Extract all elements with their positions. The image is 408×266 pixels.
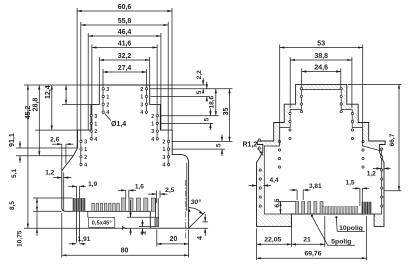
- svg-text:1,2: 1,2: [45, 170, 54, 177]
- svg-text:30°: 30°: [191, 198, 202, 206]
- svg-text:53: 53: [317, 40, 325, 47]
- svg-text:3: 3: [94, 114, 97, 120]
- svg-text:3: 3: [84, 140, 87, 146]
- svg-text:1,91: 1,91: [78, 236, 91, 243]
- svg-text:55,8: 55,8: [118, 18, 132, 25]
- svg-text:2,2: 2,2: [196, 70, 203, 79]
- svg-text:8,5: 8,5: [9, 201, 16, 210]
- svg-text:1: 1: [106, 95, 109, 101]
- svg-text:3: 3: [106, 87, 109, 93]
- svg-text:45,2: 45,2: [25, 106, 32, 120]
- svg-text:4,4: 4,4: [269, 177, 278, 184]
- svg-text:28,8: 28,8: [33, 98, 40, 112]
- svg-text:18,6: 18,6: [208, 95, 215, 108]
- svg-text:1: 1: [84, 147, 87, 153]
- svg-text:20: 20: [170, 236, 178, 243]
- svg-text:91,1: 91,1: [9, 133, 16, 147]
- svg-text:1: 1: [163, 147, 166, 153]
- svg-text:5: 5: [204, 117, 211, 121]
- svg-text:5: 5: [196, 90, 203, 94]
- svg-text:10polig: 10polig: [339, 225, 363, 232]
- svg-text:2: 2: [151, 114, 154, 120]
- svg-text:69,76: 69,76: [304, 250, 321, 257]
- svg-text:46,4: 46,4: [118, 29, 132, 36]
- svg-text:4: 4: [106, 110, 109, 116]
- svg-text:22,05: 22,05: [264, 236, 281, 243]
- svg-text:7: 7: [120, 226, 129, 230]
- svg-text:24,6: 24,6: [314, 64, 328, 71]
- svg-text:1,5: 1,5: [345, 180, 354, 187]
- svg-text:3: 3: [163, 155, 166, 161]
- svg-text:2,6: 2,6: [50, 137, 59, 144]
- svg-text:1: 1: [138, 231, 147, 235]
- svg-text:1: 1: [151, 122, 154, 128]
- svg-text:5,1: 5,1: [11, 169, 18, 178]
- svg-text:5polig: 5polig: [331, 239, 351, 246]
- svg-text:5: 5: [215, 143, 222, 147]
- svg-text:Ø1,4: Ø1,4: [111, 121, 126, 128]
- svg-text:2: 2: [163, 140, 166, 146]
- svg-text:1,9: 1,9: [88, 181, 97, 188]
- svg-text:41,6: 41,6: [118, 40, 132, 47]
- svg-text:60,6: 60,6: [118, 4, 132, 11]
- svg-text:66,7: 66,7: [389, 133, 396, 146]
- svg-text:2: 2: [106, 102, 109, 108]
- svg-text:35: 35: [223, 108, 230, 116]
- svg-text:R1,2: R1,2: [243, 142, 258, 149]
- svg-text:4: 4: [151, 137, 154, 143]
- svg-text:10,75: 10,75: [16, 230, 23, 247]
- svg-text:21: 21: [303, 236, 311, 243]
- svg-text:3: 3: [140, 102, 143, 108]
- svg-text:3: 3: [151, 129, 154, 135]
- svg-text:1,2: 1,2: [367, 171, 376, 178]
- svg-text:3,81: 3,81: [309, 183, 322, 190]
- svg-text:1: 1: [140, 95, 143, 101]
- svg-text:4: 4: [195, 236, 204, 240]
- svg-text:6,5: 6,5: [274, 198, 281, 207]
- svg-text:12,4: 12,4: [45, 85, 52, 99]
- svg-text:38,8: 38,8: [314, 53, 328, 60]
- svg-text:4: 4: [163, 163, 166, 169]
- svg-text:0,5x45°: 0,5x45°: [92, 221, 113, 227]
- svg-text:4: 4: [140, 110, 143, 116]
- svg-text:2: 2: [94, 129, 97, 135]
- svg-text:2,5: 2,5: [165, 187, 174, 194]
- svg-text:4: 4: [94, 137, 97, 143]
- svg-text:32,2: 32,2: [118, 53, 132, 60]
- svg-text:80: 80: [121, 247, 129, 254]
- svg-text:27,4: 27,4: [118, 65, 132, 72]
- svg-text:1,6: 1,6: [135, 183, 144, 190]
- svg-text:2: 2: [140, 87, 143, 93]
- svg-text:4: 4: [84, 163, 87, 169]
- svg-text:1: 1: [94, 122, 97, 128]
- svg-text:2: 2: [84, 155, 87, 161]
